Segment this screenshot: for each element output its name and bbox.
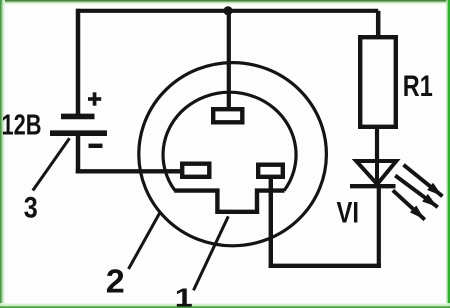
svg-text:R1: R1 bbox=[403, 70, 433, 103]
contact pin right bbox=[258, 165, 283, 177]
LED VI triangle bbox=[356, 161, 396, 184]
wire bus to resistor bbox=[376, 11, 381, 36]
contact pin left bbox=[182, 164, 209, 177]
wire bottom return bbox=[269, 264, 381, 268]
svg-text:VI: VI bbox=[337, 197, 360, 230]
wire top bus bbox=[76, 9, 378, 13]
battery GB1 plate minus bbox=[50, 130, 107, 136]
battery GB1 plate plus bbox=[61, 114, 95, 120]
leader line label 1 bbox=[194, 216, 229, 290]
contact pin top bbox=[213, 109, 242, 122]
wire right contact down bbox=[269, 179, 273, 268]
wire resistor to LED bbox=[375, 129, 379, 161]
label plus sign bbox=[88, 92, 101, 105]
connector inner circle arc bbox=[163, 92, 296, 190]
svg-text:1: 1 bbox=[175, 283, 193, 308]
LED light arrow 1 bbox=[404, 165, 443, 197]
svg-text:12B: 12B bbox=[2, 110, 42, 142]
resistor R1 body bbox=[360, 37, 396, 127]
connector keyway notch bbox=[174, 191, 284, 212]
svg-text:2: 2 bbox=[106, 262, 125, 299]
svg-text:3: 3 bbox=[24, 191, 38, 224]
LED VI cathode bar bbox=[350, 184, 396, 188]
wire LED cathode to bottom bbox=[377, 186, 381, 268]
wire battery to left contact bbox=[76, 169, 182, 173]
connector outer circle bbox=[139, 63, 327, 246]
node junction dot bbox=[223, 6, 232, 15]
LED light arrow 3 bbox=[393, 190, 425, 219]
leader line label 3 bbox=[33, 138, 70, 190]
label minus sign bbox=[89, 144, 103, 148]
wire battery negative lead down bbox=[76, 136, 81, 173]
leader line label 2 bbox=[129, 212, 161, 270]
LED light arrow 2 bbox=[395, 176, 438, 208]
wire top contact to bus bbox=[227, 12, 231, 110]
wire battery positive lead bbox=[76, 9, 81, 116]
LED VI anode wire through triangle bbox=[375, 155, 379, 186]
